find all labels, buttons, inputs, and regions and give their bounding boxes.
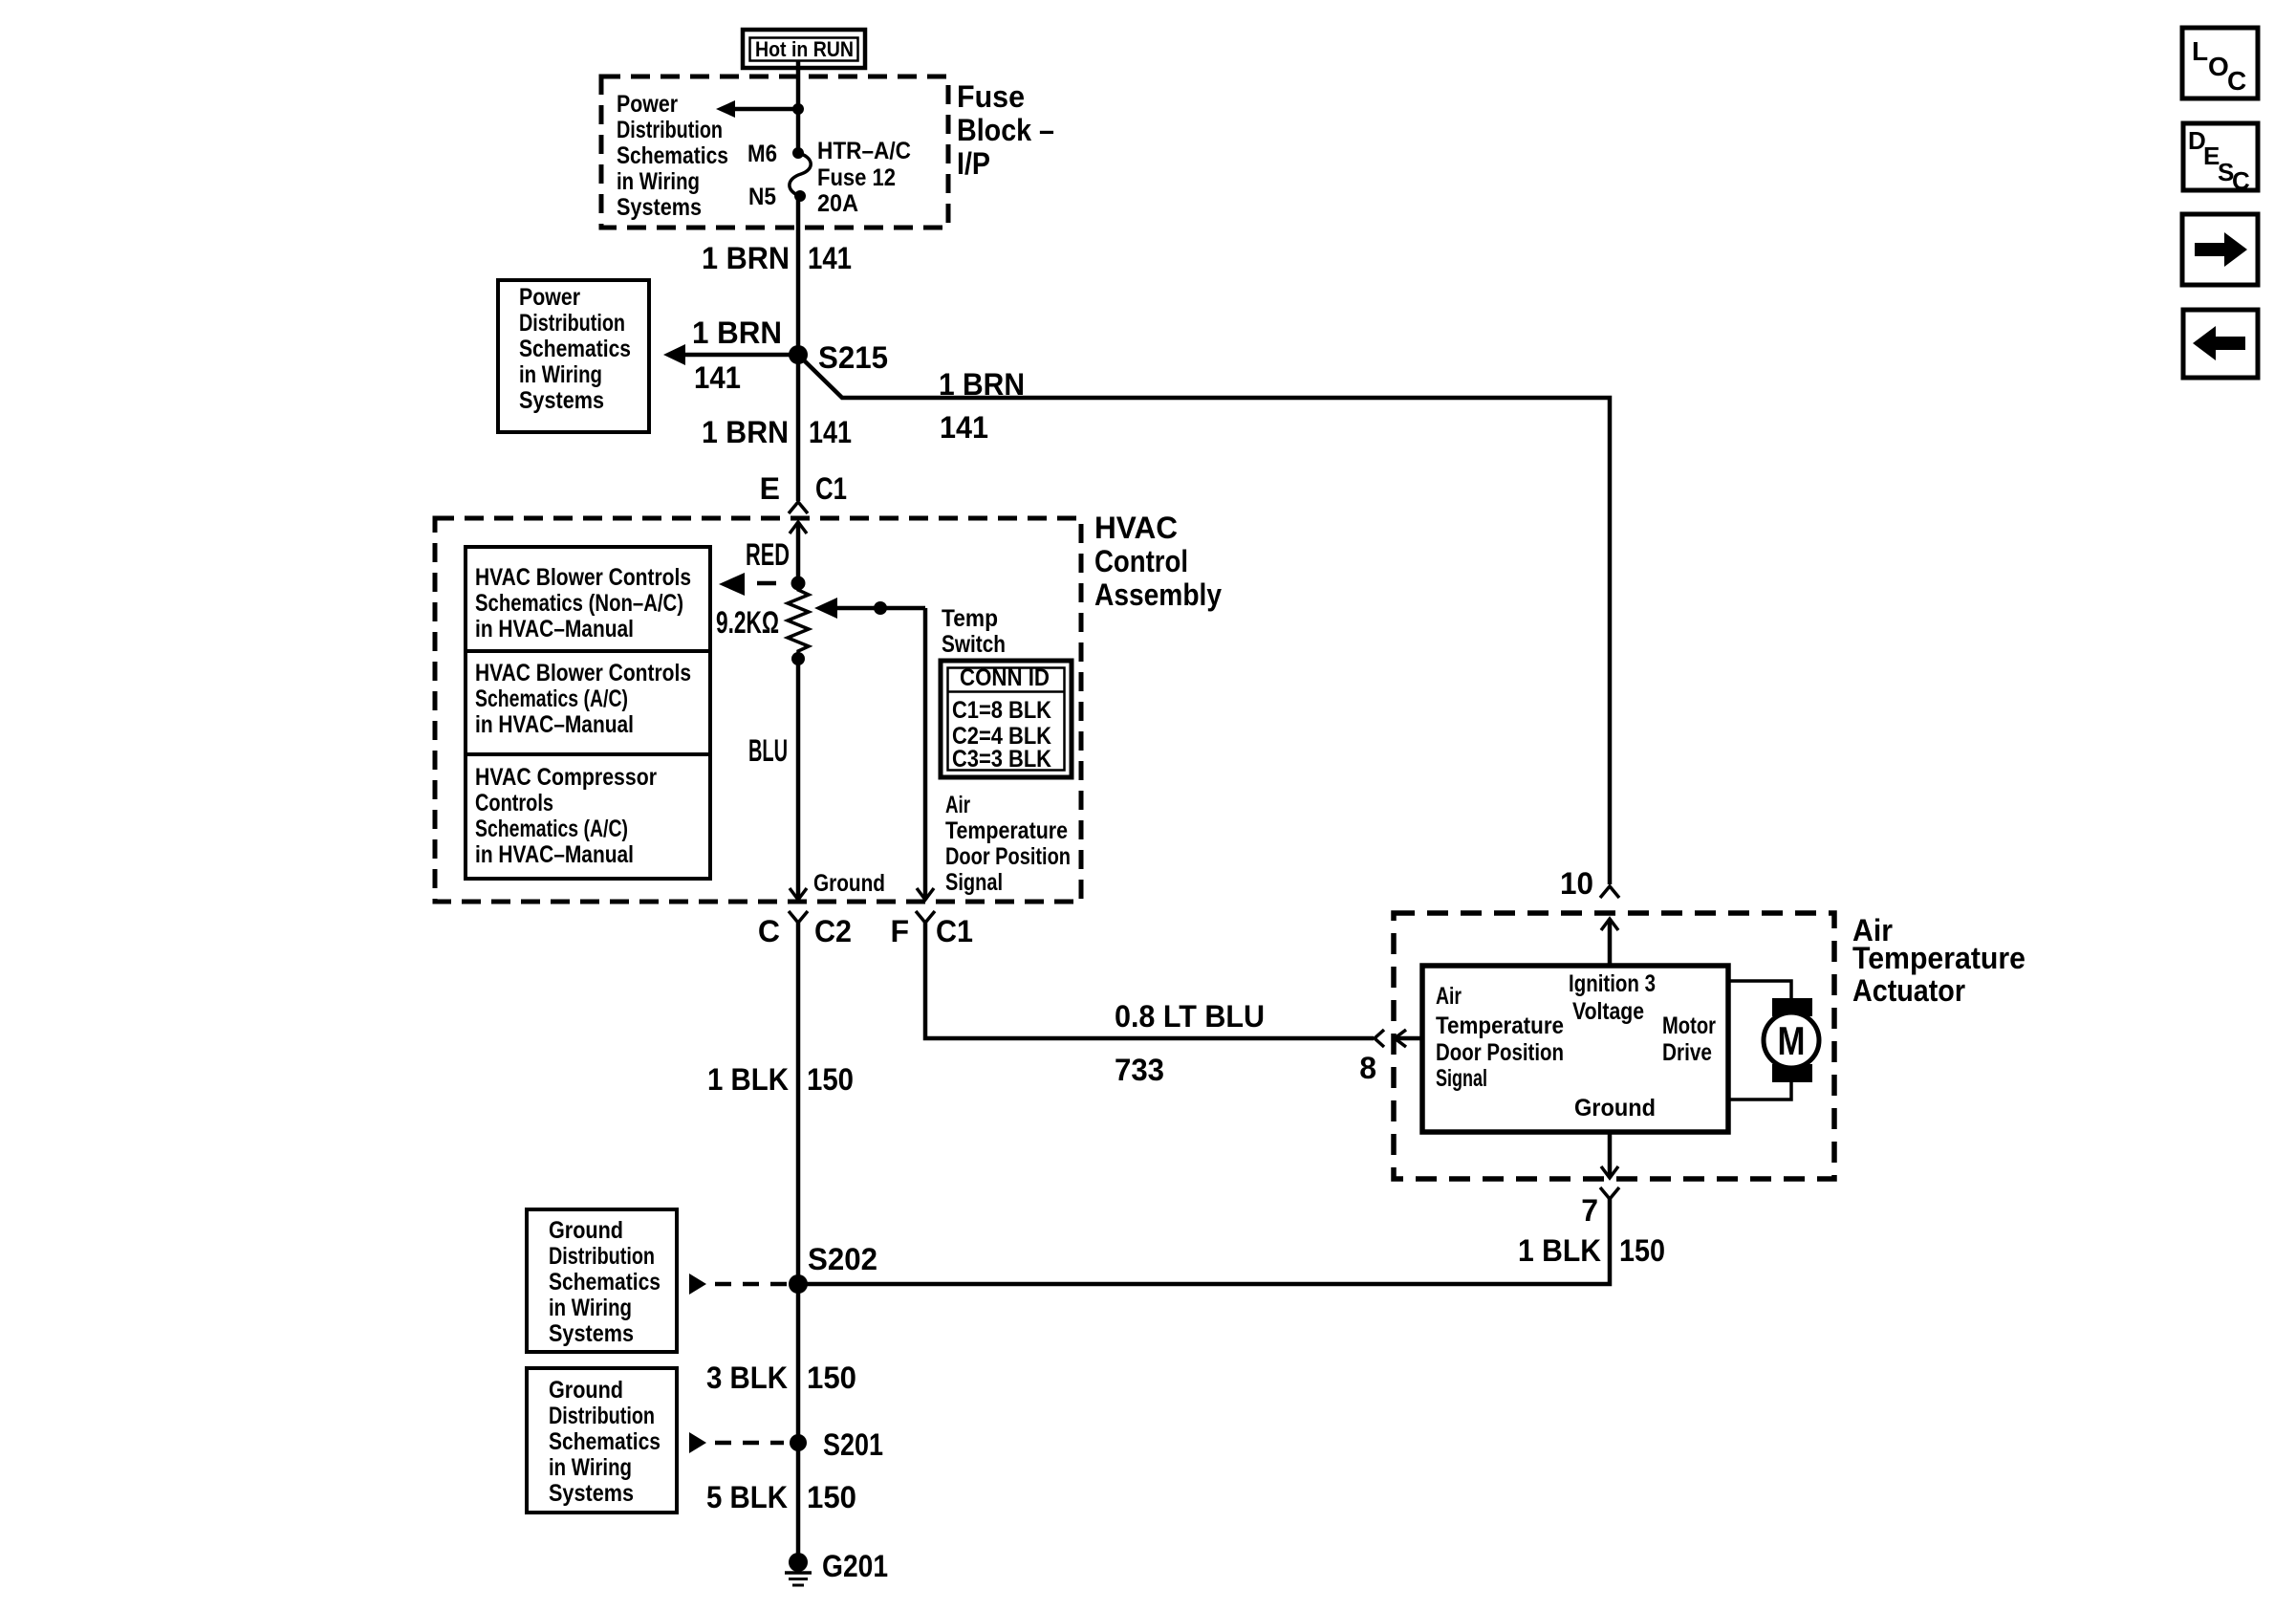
svg-text:Power: Power [519, 284, 580, 311]
svg-text:1 BRN: 1 BRN [692, 316, 782, 350]
svg-text:Ground: Ground [549, 1377, 623, 1404]
svg-text:Air: Air [1436, 983, 1462, 1010]
svg-text:HVAC Blower Controls: HVAC Blower Controls [475, 660, 691, 686]
power distribution reference text (in fuse block) [617, 91, 728, 221]
wire 1 BRN 141 from fuse to S215 [702, 196, 852, 355]
svg-text:S215: S215 [818, 340, 888, 375]
svg-text:Schematics (A/C): Schematics (A/C) [475, 816, 628, 842]
svg-text:C2: C2 [814, 914, 852, 948]
svg-text:C: C [758, 914, 780, 948]
svg-text:Block –: Block – [957, 113, 1054, 147]
wire 1 BRN 141 from S215 to actuator pin 10 [798, 355, 1610, 884]
svg-text:in HVAC–Manual: in HVAC–Manual [475, 841, 634, 868]
signal arrows out of HVAC box bottom [790, 888, 934, 900]
svg-text:M6: M6 [747, 141, 777, 167]
svg-text:Motor: Motor [1662, 1012, 1716, 1039]
ground distribution schematics reference box 1 [527, 1209, 677, 1352]
svg-text:Fuse: Fuse [957, 79, 1025, 114]
svg-text:in Wiring: in Wiring [617, 168, 700, 195]
dashed arrow RED to blower controls [719, 573, 776, 596]
svg-text:Voltage: Voltage [1572, 998, 1644, 1025]
svg-text:Schematics: Schematics [617, 142, 728, 169]
svg-text:E: E [760, 471, 780, 506]
svg-text:3 BLK: 3 BLK [706, 1361, 788, 1395]
svg-text:C: C [2227, 66, 2246, 96]
svg-text:in HVAC–Manual: in HVAC–Manual [475, 616, 634, 642]
wire 1 BRN 141 from S215 down to connector E [702, 355, 852, 501]
svg-text:Ground: Ground [549, 1217, 623, 1244]
air temperature door position signal label (HVAC side) [945, 792, 1071, 896]
svg-text:Distribution: Distribution [519, 310, 625, 337]
svg-text:150: 150 [1619, 1233, 1665, 1268]
svg-text:1 BLK: 1 BLK [1518, 1233, 1601, 1268]
svg-text:F: F [890, 914, 909, 948]
svg-text:Temperature: Temperature [1852, 941, 2025, 975]
svg-text:9.2KΩ: 9.2KΩ [716, 605, 779, 640]
svg-text:141: 141 [809, 415, 852, 449]
svg-text:HVAC: HVAC [1094, 511, 1178, 545]
svg-text:N5: N5 [748, 184, 776, 210]
svg-text:Schematics (Non–A/C): Schematics (Non–A/C) [475, 590, 683, 617]
wire 5 BLK 150 from S201 to G201 [706, 1480, 856, 1514]
fuse terminal label M6 [747, 141, 777, 167]
svg-text:in Wiring: in Wiring [519, 361, 602, 388]
svg-text:7: 7 [1581, 1193, 1598, 1228]
svg-text:5 BLK: 5 BLK [706, 1480, 788, 1514]
svg-text:Controls: Controls [475, 790, 553, 816]
HVAC control assembly name label [1094, 511, 1222, 612]
node junction at power feed [792, 103, 804, 115]
splice S215 [789, 340, 888, 375]
splice S202 [789, 1242, 877, 1294]
svg-text:Distribution: Distribution [617, 117, 723, 143]
svg-text:HTR–A/C: HTR–A/C [817, 138, 911, 164]
svg-text:Ignition 3: Ignition 3 [1569, 970, 1656, 997]
svg-text:0.8 LT BLU: 0.8 LT BLU [1115, 999, 1265, 1034]
svg-text:Schematics: Schematics [549, 1269, 661, 1295]
svg-text:Temp: Temp [942, 605, 998, 632]
svg-text:Air: Air [945, 792, 970, 818]
svg-text:C1=8 BLK: C1=8 BLK [952, 697, 1051, 724]
svg-text:Temperature: Temperature [945, 817, 1068, 844]
connector symbols C C2 and F C1 [789, 911, 808, 1284]
svg-text:150: 150 [807, 1062, 854, 1097]
svg-text:Schematics (A/C): Schematics (A/C) [475, 686, 628, 712]
connector symbol at actuator pin 8 [1359, 1030, 1384, 1085]
fuse block I/P dashed box [601, 76, 948, 228]
svg-text:20A: 20A [817, 190, 858, 217]
connector symbol at E C1 [789, 502, 808, 513]
wire label BLU [748, 733, 788, 768]
wire arrow to power distribution schematics [716, 100, 798, 118]
node on RED line [791, 577, 806, 591]
svg-text:Systems: Systems [549, 1320, 634, 1347]
svg-text:Drive: Drive [1662, 1039, 1712, 1066]
svg-text:Distribution: Distribution [549, 1403, 655, 1429]
svg-text:G201: G201 [822, 1549, 888, 1583]
fuse value label [817, 138, 911, 217]
fuse 12 HTR-A/C 20A [790, 147, 811, 202]
svg-text:BLU: BLU [748, 733, 788, 768]
svg-text:Schematics: Schematics [519, 336, 631, 362]
svg-text:O: O [2208, 52, 2229, 81]
Ground label at HVAC box exit [813, 870, 885, 897]
ground G201 [785, 1549, 888, 1585]
nav icon back arrow [2183, 310, 2258, 378]
svg-text:Switch: Switch [942, 631, 1006, 658]
svg-text:Power: Power [617, 91, 678, 118]
svg-text:141: 141 [940, 410, 988, 445]
svg-text:Systems: Systems [519, 387, 604, 414]
svg-text:C3=3 BLK: C3=3 BLK [952, 746, 1051, 773]
svg-text:in HVAC–Manual: in HVAC–Manual [475, 711, 634, 738]
wire from Hot in RUN down to fuse [796, 61, 801, 153]
svg-text:141: 141 [808, 241, 852, 275]
nav icon next arrow [2182, 214, 2258, 285]
actuator name label [1852, 913, 2025, 1008]
svg-text:I/P: I/P [957, 146, 990, 181]
svg-text:Fuse 12: Fuse 12 [817, 164, 896, 191]
wire label 1 BLK 150 (actuator ground) [1518, 1233, 1665, 1268]
actuator internal module box [1422, 966, 1728, 1132]
ground distribution schematics reference box 2 [527, 1368, 677, 1513]
svg-text:S201: S201 [823, 1427, 883, 1462]
svg-text:C: C [2232, 166, 2250, 195]
svg-text:1 BRN: 1 BRN [939, 367, 1025, 402]
wire label RED [746, 537, 790, 572]
CONN ID table [941, 661, 1072, 777]
air temperature actuator dashed box [1394, 913, 1834, 1179]
nav icon LOC [2182, 28, 2258, 98]
pin 10 label and connector [1560, 866, 1619, 901]
svg-text:in Wiring: in Wiring [549, 1454, 632, 1481]
svg-text:CONN ID: CONN ID [960, 664, 1050, 691]
svg-text:S202: S202 [808, 1242, 877, 1276]
svg-text:Ground: Ground [813, 870, 885, 897]
connector pin labels C C2 F C1 [758, 914, 973, 948]
svg-text:Temperature: Temperature [1436, 1012, 1564, 1039]
HVAC control assembly dashed box [435, 518, 1081, 902]
svg-text:Actuator: Actuator [1852, 973, 1965, 1008]
svg-text:L: L [2192, 36, 2208, 66]
wire arrow left from S215, 1 BRN 141 [663, 316, 798, 395]
pin 7 connector and label [798, 1187, 1619, 1284]
signal arrow into actuator pin 8 [1395, 1030, 1422, 1047]
dashed arrow from ground distribution to S202 [689, 1274, 788, 1295]
ground arrow out of actuator [1601, 1132, 1618, 1178]
splice S201 [790, 1427, 883, 1462]
node below resistor [791, 652, 805, 900]
svg-text:M: M [1778, 1018, 1806, 1063]
svg-text:Hot in RUN: Hot in RUN [755, 37, 854, 61]
wiper arrow of temp switch [814, 598, 925, 900]
HVAC blower controls reference box (3 cells) [466, 547, 710, 879]
temp switch label [942, 605, 1006, 658]
power label box "Hot in RUN" [743, 30, 865, 68]
wire label 1 BLK 150 (HVAC ground) [707, 1062, 854, 1097]
svg-text:1 BRN: 1 BRN [702, 241, 790, 275]
motor M [1764, 998, 1819, 1082]
svg-text:733: 733 [1115, 1053, 1164, 1087]
svg-text:Assembly: Assembly [1094, 577, 1222, 612]
svg-text:HVAC Compressor: HVAC Compressor [475, 764, 657, 791]
svg-text:150: 150 [807, 1361, 856, 1395]
svg-text:Systems: Systems [617, 194, 702, 221]
svg-text:1 BRN: 1 BRN [702, 415, 789, 449]
power distribution schematics reference box [498, 280, 649, 432]
wire 3 BLK 150 from S202 to S201 [706, 1284, 856, 1562]
svg-text:in Wiring: in Wiring [549, 1295, 632, 1321]
svg-text:Door Position: Door Position [945, 843, 1071, 870]
svg-text:C1: C1 [936, 914, 973, 948]
svg-text:Schematics: Schematics [549, 1428, 661, 1455]
svg-text:8: 8 [1359, 1051, 1376, 1085]
nav icon DESC [2183, 123, 2258, 195]
motor drive wires [1728, 981, 1791, 1099]
resistor 9.2K ohm (temp potentiometer) [716, 585, 809, 653]
svg-text:HVAC Blower Controls: HVAC Blower Controls [475, 564, 691, 591]
signal arrow into actuator from pin 10 [1601, 919, 1618, 966]
dashed arrow from ground distribution to S201 [689, 1432, 784, 1453]
svg-text:Systems: Systems [549, 1480, 634, 1507]
svg-text:RED: RED [746, 537, 790, 572]
svg-text:Signal: Signal [945, 869, 1003, 896]
fuse terminal label N5 [748, 184, 776, 210]
signal arrow into HVAC box [790, 522, 807, 585]
svg-text:Door Position: Door Position [1436, 1039, 1564, 1066]
svg-text:150: 150 [807, 1480, 856, 1514]
svg-text:Signal: Signal [1436, 1065, 1487, 1092]
svg-text:Ground: Ground [1574, 1095, 1656, 1121]
svg-text:1 BLK: 1 BLK [707, 1062, 789, 1097]
fuse block name label [957, 79, 1054, 181]
svg-text:10: 10 [1560, 866, 1593, 901]
svg-text:Distribution: Distribution [549, 1243, 655, 1270]
svg-text:Control: Control [1094, 544, 1188, 578]
connector E / C1 labels [760, 471, 847, 506]
svg-text:C1: C1 [815, 471, 847, 506]
svg-text:141: 141 [694, 360, 741, 395]
wire label 0.8 LT BLU 733 [1115, 999, 1265, 1087]
